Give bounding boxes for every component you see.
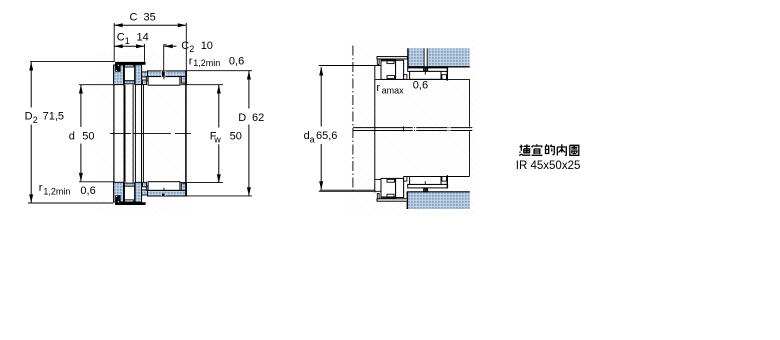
svg-text:1,2min: 1,2min (193, 58, 220, 68)
right ring right face top (446, 68, 448, 81)
left bearing bore through lines (125, 84, 144, 182)
left bearing cap bottom (black) (115, 195, 146, 205)
left bearing thrust housing washer top (blue) (135, 65, 142, 85)
right thrust roller column bottom (381, 178, 396, 198)
right housing bottom (blue) (407, 192, 470, 209)
dimension D 62 (238, 71, 264, 196)
svg-text:10: 10 (201, 40, 213, 52)
extension line D2 top (30, 61, 114, 63)
right ring right face bottom (446, 175, 448, 188)
svg-text:r: r (376, 82, 380, 94)
left bearing thrust roller bottom (white) (124, 186, 134, 202)
left bearing thrust shaft washer bottom (blue) (114, 182, 124, 202)
svg-text:r: r (189, 55, 193, 67)
right needle roller top (410, 71, 441, 79)
svg-text:62: 62 (252, 112, 264, 124)
label r12min 0,6 top right (189, 55, 244, 68)
right thrust washer2 bottom (396, 178, 404, 197)
right shaft surface bottom needle (404, 176, 470, 178)
extension line D2 bottom (28, 202, 114, 204)
extension line Fw top (181, 84, 223, 86)
right washer1 through face line (374, 65, 376, 192)
label r12min 0,6 bottom left (39, 182, 96, 197)
right thrust roller column top (381, 60, 396, 80)
left bearing oil notch top (161, 71, 166, 77)
left bearing needle roller bottom (white) (148, 182, 180, 191)
svg-text:C: C (117, 32, 125, 44)
right shaft surface top (375, 78, 470, 80)
left bearing roller tick bottom (163, 188, 165, 191)
svg-text:2: 2 (189, 44, 194, 54)
right cap lip top (377, 59, 379, 64)
svg-text:0,6: 0,6 (413, 79, 428, 91)
extension line D bottom (187, 195, 253, 197)
svg-text:C: C (181, 40, 189, 52)
left bearing roller tick top (163, 77, 165, 80)
dimension D2 71,5 (25, 62, 64, 203)
svg-text:14: 14 (137, 32, 149, 44)
dimension C1 14 (114, 32, 149, 49)
dimension da 65,6 (304, 67, 338, 190)
faint hatch panel left figure (94, 53, 191, 214)
right needle roller bottom (410, 177, 441, 185)
extension line Fw bottom (180, 181, 223, 183)
right housing top (blue) (407, 48, 469, 68)
dimension d 50 (69, 85, 95, 181)
left bearing outer ring band top (blue) (148, 71, 187, 77)
faint hatch panel right figure (344, 40, 477, 215)
svg-text:65,6: 65,6 (316, 130, 337, 142)
dimension C 35 (114, 11, 186, 27)
dimension C2 10 leader (164, 40, 213, 71)
extension line da bottom (320, 189, 375, 191)
left bearing outer ring band bottom (blue) (148, 190, 187, 196)
svg-text:1: 1 (125, 36, 130, 46)
svg-text:1,2min: 1,2min (43, 187, 70, 197)
label suitable inner ring (CJK strokes) (519, 144, 579, 155)
right shaft surface bottom thrust (375, 178, 404, 180)
label r amax 0,6 (376, 79, 428, 95)
left bearing ring right flange bottom (blue) (181, 184, 186, 191)
right figure shaft break dash-dot line (352, 46, 354, 192)
svg-text:50: 50 (82, 130, 94, 142)
right cap bar bottom (377, 199, 408, 201)
svg-text:d: d (69, 130, 75, 142)
right cap bar top (377, 57, 408, 59)
left figure centerline (110, 132, 191, 134)
left bearing ring left flange top (blue) (146, 77, 148, 81)
right thrust washer2 top (396, 60, 404, 79)
svg-text:50: 50 (230, 131, 242, 143)
svg-text:0,6: 0,6 (229, 55, 244, 67)
left bearing oil notch bottom (161, 193, 166, 196)
left bearing cap top (black) (115, 62, 146, 72)
svg-text:C 35: C 35 (130, 11, 156, 23)
svg-text:w: w (213, 135, 221, 145)
svg-text:D: D (25, 111, 33, 123)
right oil hole square top (424, 68, 428, 74)
left bearing right face (185, 71, 187, 196)
right cap lip bottom (377, 193, 379, 198)
right shaft shoulder bottom line (319, 190, 381, 192)
dimension Fw 50 (210, 85, 242, 183)
left bearing thrust shaft washer top (blue) (114, 65, 124, 85)
left bearing ring right flange top (blue) (181, 77, 186, 84)
right figure center lines pair (353, 127, 472, 131)
right shaft right face (469, 79, 471, 176)
extension line d bottom (79, 181, 114, 183)
right shaft shoulder top line (319, 65, 381, 67)
right oil hole square bottom (424, 181, 428, 191)
left bearing needle roller top (white) (148, 77, 180, 86)
extension line C right (185, 23, 187, 71)
right ring flangeR top (442, 75, 447, 80)
left bearing washer-to-ring step top (blue) (142, 72, 148, 77)
left bearing ring left flange bottom (blue) (146, 186, 148, 190)
svg-text:2: 2 (33, 115, 38, 125)
svg-text:amax: amax (382, 86, 405, 96)
right ring flangeL bottom (404, 177, 407, 182)
svg-text:a: a (310, 135, 315, 145)
left bearing thrust roller top (white) (124, 65, 134, 81)
right ring flangeL top (404, 75, 407, 80)
extension line d top (79, 84, 114, 86)
right ring flangeR bottom (442, 177, 447, 182)
left bearing thrust cage strip bottom (blue) (124, 183, 134, 186)
svg-text:IR 45x50x25: IR 45x50x25 (516, 160, 581, 172)
svg-text:0,6: 0,6 (80, 185, 95, 197)
right washer2 face ticks (403, 60, 405, 197)
svg-text:D: D (238, 112, 246, 124)
extension line D top (187, 70, 253, 72)
extension line C1 right (144, 44, 146, 62)
left bearing washer-to-ring step bottom (blue) (142, 190, 148, 195)
left bearing outer left face (113, 65, 115, 202)
svg-text:71,5: 71,5 (43, 111, 64, 123)
right needle ring band top (408, 68, 448, 72)
left bearing thrust cage strip top (blue) (124, 81, 134, 84)
left bearing thrust housing washer bottom (blue) (135, 182, 142, 202)
svg-text:r: r (39, 182, 43, 194)
right needle ring band bottom (408, 184, 448, 188)
extension line C left (113, 23, 115, 62)
